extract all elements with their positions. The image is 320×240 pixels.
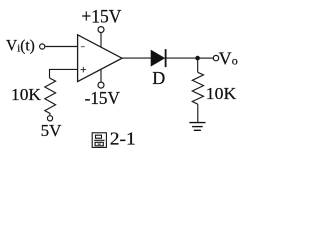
op-amp U1 (78, 35, 122, 82)
wire op-amp output (122, 57, 151, 59)
5V terminal (47, 116, 52, 121)
wire node to output terminal (198, 57, 214, 59)
+15V supply terminal (98, 27, 104, 33)
svg-text:2-1: 2-1 (110, 128, 136, 148)
op-amp inverting input marker - (81, 46, 85, 48)
wire diode to node (167, 57, 198, 59)
svg-text:V: V (219, 48, 232, 68)
-15V supply terminal (98, 82, 104, 88)
-15V supply pin wire (100, 69, 102, 82)
svg-text:o: o (232, 54, 238, 68)
op-amp non-inverting input marker + (81, 67, 87, 73)
svg-text:D: D (152, 68, 165, 88)
svg-text:V: V (6, 38, 18, 55)
wire non-inverting input (50, 69, 78, 78)
ground (189, 123, 205, 131)
svg-text:(t): (t) (20, 38, 35, 55)
+15V supply pin wire (100, 33, 102, 48)
svg-text:10K: 10K (206, 84, 237, 103)
node junction (195, 56, 200, 61)
wire node to resistor R2 (197, 58, 199, 72)
resistor R2 10K right (192, 72, 203, 104)
wire inverting input (45, 46, 78, 48)
output terminal Vo (213, 55, 218, 60)
resistor R1 10K left (45, 78, 56, 115)
input terminal Vi (40, 44, 45, 49)
svg-text:10K: 10K (11, 85, 42, 104)
caption ideograph 圖 (drawn) (92, 133, 106, 148)
svg-text:-15V: -15V (85, 88, 121, 108)
svg-text:5V: 5V (41, 121, 63, 140)
diode D (151, 49, 166, 67)
svg-text:+15V: +15V (81, 7, 121, 28)
wire resistor to ground (197, 104, 199, 122)
